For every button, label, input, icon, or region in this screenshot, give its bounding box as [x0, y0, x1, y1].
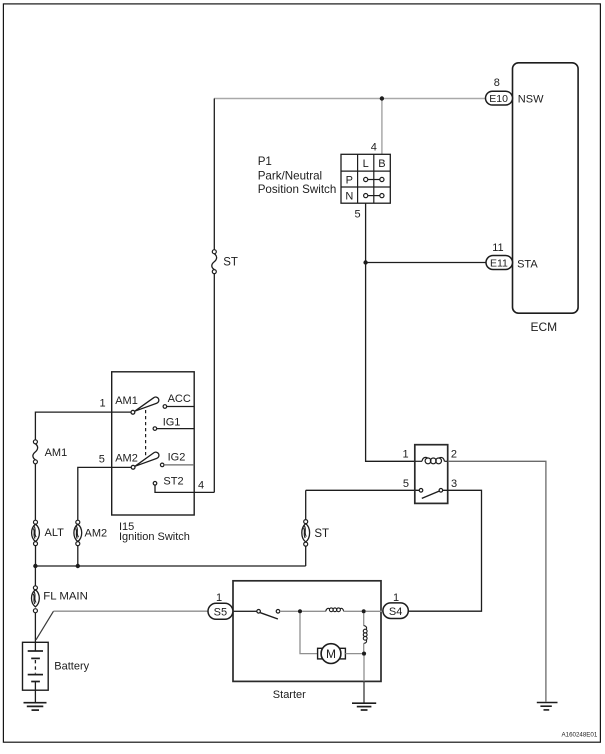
svg-text:Park/Neutral: Park/Neutral: [258, 169, 322, 182]
svg-text:IG2: IG2: [168, 451, 186, 463]
pin 5 label (P1): [354, 209, 360, 221]
wire: battery to ground: [34, 690, 36, 703]
svg-text:1: 1: [216, 592, 222, 604]
node: junction on STA wire: [363, 260, 367, 264]
svg-text:1: 1: [100, 398, 106, 410]
svg-text:FL MAIN: FL MAIN: [43, 590, 88, 602]
terminal ACC of I15: [163, 393, 194, 408]
ECM U1 box: [513, 63, 579, 334]
pin 1 label (S5): [216, 592, 222, 604]
ignition switch I15 box: [112, 372, 195, 543]
wire: motor to lower junction (gray): [345, 653, 362, 655]
battery: [23, 642, 90, 690]
coil (starter pull-in, vertical): [363, 626, 367, 644]
fusible link AM2: [74, 520, 107, 545]
svg-text:NSW: NSW: [518, 93, 544, 105]
fusible link ST (starter): [302, 520, 329, 547]
wire: S5 to starter switch: [233, 610, 257, 612]
wire: ST vertical from top wire down to ST2 jog: [213, 99, 215, 493]
terminal ST2 of I15: [153, 476, 183, 488]
wire: motor branch (gray): [300, 613, 318, 653]
svg-text:N: N: [345, 191, 353, 203]
node: rail junction at AM2 link: [76, 564, 80, 568]
wire: battery to S5 horizontal (gray): [54, 610, 209, 612]
svg-text:ACC: ACC: [168, 393, 191, 405]
svg-text:8: 8: [494, 77, 500, 89]
svg-text:S4: S4: [389, 606, 402, 618]
wire: ST2 pin jog: [155, 485, 214, 492]
wire: rail up through ST link to relay pin 5: [306, 490, 420, 566]
coil (starter hold-in, horizontal): [326, 608, 344, 612]
svg-text:S5: S5: [214, 606, 227, 618]
svg-text:2: 2: [451, 448, 457, 460]
wire: STA horizontal to E11: [366, 262, 486, 264]
pin 11 label: [492, 242, 503, 254]
pin 4 label (P1): [371, 142, 377, 154]
wire: switch to pull-in junction (gray): [280, 610, 298, 612]
wire: AM1 feed from fuse to I15: [35, 412, 131, 440]
svg-text:3: 3: [451, 478, 457, 490]
relay coil: [415, 457, 448, 463]
pin 1 label (S4): [393, 592, 399, 604]
park/neutral position switch P1 (table symbol): [341, 154, 390, 203]
wire: gray branch down to park/neutral switch pin 4: [381, 99, 383, 155]
drawing number note: [562, 731, 598, 738]
P1 contact row P: [364, 177, 384, 181]
starter box: [233, 581, 381, 701]
switch lever AM1 (wedge): [135, 397, 159, 411]
wire: P1 pin5 vertical down to relay pin 1: [366, 203, 415, 461]
terminal IG1 of I15: [153, 416, 194, 430]
pin 1 label (I15 AM1): [100, 398, 106, 410]
wire: AM2 link to rail: [77, 546, 79, 566]
svg-text:1: 1: [402, 448, 408, 460]
svg-text:4: 4: [198, 479, 204, 491]
wire: FL MAIN to battery: [34, 613, 36, 643]
wire: rail down to FL MAIN: [34, 566, 36, 586]
svg-text:ECM: ECM: [531, 320, 558, 334]
wire: pull-in coil to lower junction (gray): [363, 643, 365, 651]
starter solenoid switch: [257, 610, 280, 620]
node: junction on NSW wire: [380, 96, 384, 100]
node: junction motor / pull-in coil: [362, 652, 366, 656]
net label NSW: [518, 93, 544, 105]
ground (right, relay coil): [537, 703, 558, 710]
svg-text:AM2: AM2: [85, 528, 108, 540]
wire: AM2 feed from link to I15: [78, 467, 131, 520]
svg-text:P: P: [346, 175, 353, 187]
P1 contact row N: [364, 194, 384, 198]
svg-text:Starter: Starter: [273, 689, 306, 701]
relay (starter relay) box: [415, 445, 448, 504]
dashed link between levers: [145, 410, 147, 460]
svg-text:4: 4: [371, 142, 377, 154]
pin 5 label (I15 AM2): [99, 454, 105, 466]
svg-text:11: 11: [492, 242, 503, 254]
svg-text:1: 1: [393, 592, 399, 604]
pin 4 label (I15 ST2): [198, 479, 204, 491]
svg-text:ALT: ALT: [45, 527, 65, 539]
wire: relay pin 3 down to S4: [408, 490, 481, 611]
connector S4 pin 1: [383, 603, 408, 619]
pin 3 label (relay): [451, 478, 457, 490]
wire: relay pin 2 to right ground (gray): [448, 461, 546, 701]
pin 5 label (relay): [403, 478, 409, 490]
terminal AM2 of I15: [115, 453, 138, 470]
wire: AM1 fuse to ALT link: [34, 464, 36, 520]
svg-text:M: M: [326, 647, 336, 661]
connector S5 pin 1: [208, 603, 233, 619]
svg-text:ST: ST: [223, 256, 238, 268]
terminal AM1 of I15: [115, 395, 138, 414]
wire: battery feed rail: [35, 565, 305, 567]
wire: IG2 stub (gray): [164, 464, 194, 466]
wire: NSW net top horizontal (gray): [214, 98, 486, 100]
connector E10 (ECM terminal NSW): [486, 91, 513, 105]
node: junction at S4 / pull-in coil: [362, 609, 366, 613]
ground (starter): [352, 703, 376, 710]
svg-text:Ignition Switch: Ignition Switch: [119, 531, 190, 543]
fusible link FL MAIN: [32, 586, 88, 613]
svg-text:AM1: AM1: [115, 395, 138, 407]
wire: diagonal branch to S5 feed: [36, 611, 54, 640]
svg-text:Battery: Battery: [54, 660, 89, 672]
P1 name labels: [258, 155, 337, 196]
svg-text:Position Switch: Position Switch: [258, 183, 337, 196]
svg-text:L: L: [363, 158, 369, 170]
wire: junction down to pull-in coil (gray): [363, 613, 365, 625]
node: rail junction at ALT/FL MAIN: [33, 564, 37, 568]
svg-text:ST: ST: [314, 528, 329, 540]
svg-text:STA: STA: [517, 258, 538, 270]
svg-text:E10: E10: [489, 93, 508, 105]
switch lever AM2 (wedge): [135, 452, 159, 466]
svg-text:5: 5: [354, 209, 360, 221]
ground (battery): [24, 703, 47, 710]
svg-text:AM1: AM1: [45, 447, 68, 459]
relay contact: [419, 489, 443, 499]
wire: junction to hold-in coil (gray): [302, 610, 326, 612]
wire: junction to S4 (gray): [366, 610, 383, 612]
pin 1 label (relay): [402, 448, 408, 460]
motor M (starter motor): [318, 644, 346, 664]
wire: junction down to starter ground: [363, 656, 365, 704]
wire: ALT link to rail: [35, 546, 37, 566]
svg-text:E11: E11: [490, 258, 508, 270]
node: junction at motor branch: [298, 609, 302, 613]
pin 8 label: [494, 77, 500, 89]
wire: coil to S4 junction (gray): [344, 610, 362, 612]
fusible link ALT: [32, 520, 65, 545]
svg-text:IG1: IG1: [163, 416, 181, 428]
svg-text:B: B: [378, 158, 385, 170]
net label STA: [517, 258, 538, 270]
svg-text:AM2: AM2: [115, 453, 138, 465]
svg-text:ST2: ST2: [163, 476, 183, 488]
connector E11 (ECM terminal STA): [486, 256, 513, 270]
svg-text:5: 5: [403, 478, 409, 490]
svg-text:A160248E01: A160248E01: [562, 731, 598, 738]
svg-text:5: 5: [99, 454, 105, 466]
fuse AM1: [33, 440, 67, 464]
terminal IG2 of I15: [160, 451, 185, 466]
svg-text:P1: P1: [258, 155, 272, 168]
pin 2 label (relay): [451, 448, 457, 460]
fuse ST (ignition start fuse): [212, 250, 238, 274]
